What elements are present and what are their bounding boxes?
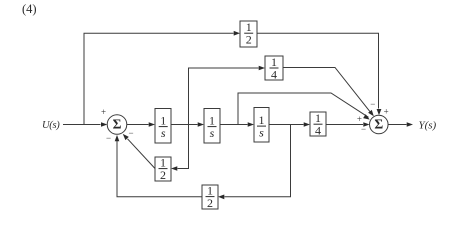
integrator block 3: [254, 108, 269, 143]
wire integrator2 to integrator3: [220, 124, 248, 126]
svg-text:2: 2: [246, 33, 252, 47]
arrowhead into top 1/2 block: [234, 31, 240, 36]
svg-text:2: 2: [160, 168, 166, 182]
value 1/s in integrator 2: [208, 113, 217, 140]
value 1/s in integrator 3: [257, 113, 266, 140]
block 1/2 bottom feedback: [202, 185, 218, 209]
summing junction S2: [370, 115, 389, 134]
sigma in S2: [374, 117, 383, 132]
integrator block 1: [155, 109, 171, 144]
sign + at sum1 input: [101, 107, 106, 117]
arrowhead output Y(s): [407, 122, 413, 127]
wire takeoff x=188.5 vertical up to 1/4 feedforward: [189, 68, 259, 125]
value 1/2 in bottom feedback block: [206, 183, 215, 210]
arrowhead into integrator1: [149, 122, 155, 127]
value 1/s in integrator 1: [159, 113, 168, 140]
svg-text:s: s: [210, 126, 215, 140]
arrowhead into integrator3: [248, 122, 254, 127]
arrowhead into middle 1/2 block: [171, 166, 177, 171]
value 1/4 in main gain block: [314, 111, 323, 138]
sign - at sum2 lower left: [361, 124, 366, 134]
block gain 1/4 main path: [310, 112, 326, 136]
svg-text:2: 2: [207, 196, 213, 210]
block 1/4 upper feedforward: [265, 56, 283, 80]
sign + at sum2 left: [357, 114, 362, 124]
wire feedforward takeoff up at x=84: [84, 33, 234, 124]
svg-text:+: +: [101, 107, 106, 117]
svg-text:−: −: [106, 133, 111, 143]
arrowhead into upper 1/4 block: [259, 66, 265, 71]
arrowhead into sum1: [101, 122, 107, 127]
svg-text:s: s: [259, 126, 264, 140]
svg-text:−: −: [370, 99, 375, 109]
block 1/2 middle feedback: [155, 157, 171, 181]
wire takeoff x=188.5 vertical down to middle 1/2 feedback: [178, 125, 189, 169]
svg-text:4: 4: [271, 67, 277, 81]
sign - at sum2 top left: [370, 99, 375, 109]
label U(s): [42, 120, 60, 131]
wire takeoff x=290.5 down to bottom 1/2 feedback: [225, 125, 291, 197]
svg-text:+: +: [357, 114, 362, 124]
arrowhead into integrator2: [198, 122, 204, 127]
svg-text:−: −: [128, 128, 133, 138]
arrowhead into sum2 from 1/4 diagonal: [368, 110, 374, 116]
wire middle 1/2 output diagonal to sum1: [128, 139, 156, 169]
arrowhead into sum2 from unity diagonal: [363, 114, 370, 119]
svg-text:−: −: [361, 124, 366, 134]
value 1/2 in top block: [244, 20, 253, 47]
wire bottom 1/2 output to sum1: [117, 141, 202, 197]
sign + at sum2 top right: [384, 107, 389, 117]
wire gain 1/4 to sum2: [326, 124, 363, 126]
arrowhead into sum1 from bottom: [115, 135, 120, 141]
arrowhead into gain 1/4 main: [304, 122, 310, 127]
wire upper 1/4 block to sum2 diagonal: [283, 68, 371, 114]
wire U(s) input line: [63, 124, 101, 126]
wire integrator1 to integrator2: [171, 124, 198, 126]
arrowhead into sum2 left: [363, 122, 369, 127]
wire integrator3 to gain 1/4 main: [269, 124, 304, 126]
value 1/2 in middle feedback block: [159, 155, 168, 182]
svg-text:(4): (4): [22, 2, 37, 16]
wire top 1/2 block to sum2 vertical drop: [257, 33, 379, 108]
value 1/4 in upper block: [270, 55, 279, 82]
wire sum1 to integrator1: [127, 124, 149, 126]
sigma in S1: [113, 117, 122, 132]
svg-text:U(s): U(s): [42, 120, 60, 131]
svg-text:Y(s): Y(s): [419, 120, 437, 132]
integrator block 2: [204, 109, 220, 144]
label Y(s): [419, 120, 437, 132]
arrowhead into sum2 from top: [377, 109, 382, 115]
summing junction S1: [107, 115, 127, 135]
arrowhead into sum1 from middle 1/2: [123, 134, 129, 140]
arrowhead into bottom 1/2 block: [218, 195, 224, 200]
svg-text:Σ: Σ: [113, 117, 122, 132]
svg-text:Σ: Σ: [374, 117, 383, 132]
block 1/2 top feedforward: [240, 21, 257, 47]
wire takeoff x=238 unity feedforward to sum2: [238, 93, 369, 125]
svg-text:4: 4: [315, 124, 321, 138]
svg-text:s: s: [161, 126, 166, 140]
sign - at sum1 diagonal: [128, 128, 133, 138]
wire sum2 to Y(s) output: [388, 124, 406, 126]
svg-text:+: +: [384, 107, 389, 117]
sign - at sum1 bottom vertical: [106, 133, 111, 143]
label (4): [22, 2, 37, 16]
